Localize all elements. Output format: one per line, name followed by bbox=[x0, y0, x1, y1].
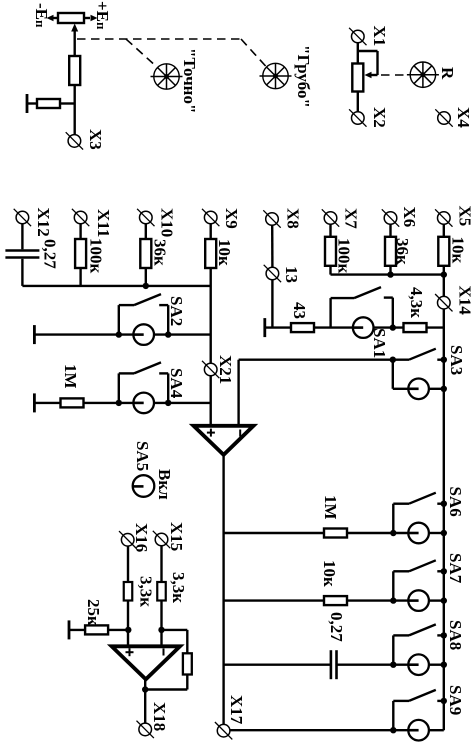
potentiometer RP supply divider body bbox=[58, 13, 84, 23]
terminal X2 bbox=[349, 109, 366, 126]
op-amp U1 bbox=[194, 426, 254, 455]
wire resistor to bus X11 bbox=[79, 268, 81, 286]
wire chassis to resistor 43 bbox=[265, 326, 291, 328]
junction dot SA7 right bbox=[441, 597, 447, 603]
wire X10 to resistor bbox=[145, 224, 147, 239]
junction dot X5 X14 bbox=[441, 271, 447, 277]
svg-text:1М: 1М bbox=[61, 364, 80, 389]
terminal X14 bbox=[435, 294, 452, 311]
wire junction to X3 bbox=[73, 104, 75, 135]
terminal X15 bbox=[153, 531, 170, 548]
wire minus branch down bbox=[237, 360, 239, 426]
resistor 100k left bbox=[75, 239, 86, 268]
wire resistor 43 to SA1 bbox=[314, 326, 353, 328]
terminal X5 bbox=[435, 209, 452, 226]
capacitor 0,27 row bbox=[331, 650, 337, 679]
terminal X7 bbox=[322, 209, 339, 226]
wire X9 to resistor bbox=[209, 224, 211, 239]
switch SA1 button bbox=[353, 317, 374, 338]
svg-text:SA8: SA8 bbox=[446, 620, 465, 650]
svg-text:10к: 10к bbox=[215, 239, 234, 266]
wire SA2 right bbox=[154, 333, 211, 335]
svg-text:X8: X8 bbox=[284, 208, 303, 229]
svg-text:SA6: SA6 bbox=[446, 487, 465, 517]
bus right horizontal bbox=[331, 273, 444, 275]
switch SA6 button bbox=[408, 523, 429, 544]
contact dot SA6 bbox=[437, 503, 444, 505]
wire 10k to SA7 bbox=[347, 599, 408, 601]
svg-text:X9: X9 bbox=[222, 208, 241, 229]
wire X16 to resistor bbox=[127, 546, 129, 582]
wire X12 to capacitor bbox=[21, 224, 23, 250]
wire op-amp minus branch horizontal bbox=[239, 359, 393, 361]
junction dot SA4 right bbox=[165, 400, 171, 406]
wire 4,3k to X14 line bbox=[427, 326, 444, 328]
svg-text:10к: 10к bbox=[320, 560, 339, 587]
switch SA1 brackets and arm bbox=[331, 287, 393, 328]
svg-text:1М: 1М bbox=[321, 495, 340, 520]
junction dot minus node bbox=[158, 627, 164, 633]
svg-text:25к: 25к bbox=[84, 599, 103, 626]
resistor 1M row bbox=[324, 529, 347, 538]
resistor 3,3k right bbox=[157, 582, 166, 601]
wire resistor to chassis bar bbox=[28, 102, 37, 104]
junction dot SA4 left bbox=[116, 400, 122, 406]
wire X5 to resistor bbox=[443, 224, 445, 237]
wire SA6 button right bbox=[429, 532, 444, 534]
junction dot SA6 right bbox=[441, 530, 447, 536]
terminal X3 bbox=[66, 132, 83, 149]
wire divider to junction bbox=[73, 85, 75, 104]
svg-text:"Грубо": "Грубо" bbox=[294, 45, 313, 108]
junction dot plus node bbox=[125, 627, 131, 633]
svg-text:Вкл: Вкл bbox=[155, 469, 174, 500]
switch SA7 button bbox=[408, 590, 429, 611]
terminal X21 bbox=[202, 361, 219, 378]
svg-text:100к: 100к bbox=[87, 238, 106, 274]
wire resistor to minus node bbox=[160, 601, 162, 647]
terminal X16 bbox=[119, 531, 136, 548]
switch SA3 arm bbox=[393, 349, 436, 360]
contact dot SA9 bbox=[437, 700, 444, 702]
svg-text:36к: 36к bbox=[393, 238, 412, 265]
svg-text:100к: 100к bbox=[335, 238, 354, 274]
svg-text:X17: X17 bbox=[227, 695, 246, 725]
wire X17 to SA9 bbox=[230, 729, 408, 731]
svg-text:SA9: SA9 bbox=[446, 685, 465, 715]
resistor 10k left bbox=[205, 239, 216, 268]
switch SA8 button bbox=[408, 654, 429, 675]
svg-text:X5: X5 bbox=[456, 206, 475, 227]
wire op-amp U2 output bbox=[144, 679, 146, 723]
wire SA7 row left bbox=[224, 599, 324, 601]
junction dot SA7 left bbox=[390, 597, 396, 603]
svg-text:43: 43 bbox=[290, 302, 309, 319]
wire chassis to SA2 bbox=[34, 333, 133, 335]
svg-text:X2: X2 bbox=[370, 107, 389, 128]
wire feedback right down bbox=[186, 630, 188, 653]
chassis bar left bbox=[26, 94, 28, 113]
wire SA9 button right bbox=[429, 729, 444, 731]
svg-text:X1: X1 bbox=[370, 26, 389, 47]
switch SA2 button bbox=[133, 324, 154, 345]
wire resistor to bus X10 bbox=[145, 268, 147, 286]
resistor 1M bbox=[61, 398, 84, 407]
+Ep arrow bbox=[84, 15, 98, 21]
dashed mechanical link horizontal bbox=[77, 38, 241, 40]
wire capacitor to bus bbox=[21, 259, 23, 286]
svg-text:X7: X7 bbox=[342, 208, 361, 229]
wire X21 to op-amp bbox=[209, 376, 211, 426]
junction dot SA3 left bbox=[390, 357, 396, 363]
wire chassis to 1M bbox=[34, 402, 60, 404]
terminal X18 bbox=[137, 721, 154, 738]
terminal X12 bbox=[14, 209, 31, 226]
wire potentiometer to X2 bbox=[357, 92, 359, 112]
svg-text:13: 13 bbox=[282, 266, 301, 283]
wire SA1 to junction bbox=[374, 326, 404, 328]
contact dot SA3 bbox=[437, 359, 444, 361]
junction dot SA8 right bbox=[441, 662, 447, 668]
resistor 100k right bbox=[325, 237, 336, 266]
wire capacitor to SA8 bbox=[338, 664, 409, 666]
contact dot SA7 bbox=[437, 570, 444, 572]
svg-text:R: R bbox=[438, 67, 457, 80]
wire X7 to resistor bbox=[329, 224, 331, 237]
switch SA3 bracket bbox=[393, 360, 409, 389]
svg-text:X14: X14 bbox=[456, 286, 475, 316]
lamp Grubo bbox=[260, 63, 292, 88]
switch SA2 brackets and arm bbox=[119, 294, 168, 335]
wire 25k to plus node bbox=[108, 629, 128, 631]
terminal X10 bbox=[137, 209, 154, 226]
resistor 10k row bbox=[324, 596, 347, 605]
wire junction left branch bbox=[60, 102, 75, 104]
terminal X8 bbox=[263, 210, 280, 227]
svg-text:SA1: SA1 bbox=[370, 328, 389, 358]
terminal X1 bbox=[349, 28, 366, 45]
resistor 10k right bbox=[438, 237, 449, 266]
terminal X17 bbox=[215, 722, 232, 739]
junction dot SA2 left bbox=[116, 331, 122, 337]
svg-text:X11: X11 bbox=[94, 209, 113, 237]
junction dot X6 bus bbox=[387, 271, 393, 277]
wire SA6 row left bbox=[224, 532, 324, 534]
chassis bar 25k bbox=[68, 620, 70, 639]
switch SA8 bracket and arm bbox=[393, 624, 436, 664]
wire X14 down bbox=[443, 309, 445, 360]
resistor 36k right bbox=[385, 237, 396, 266]
svg-text:0,27: 0,27 bbox=[41, 239, 60, 269]
resistor 3,3k left bbox=[124, 582, 133, 601]
junction dot X10 bus bbox=[143, 283, 149, 289]
switch SA5 button bbox=[133, 475, 155, 497]
wire feedback top bbox=[162, 629, 188, 631]
wire 1M to SA6 bbox=[347, 532, 408, 534]
chassis bar SA2 bbox=[33, 325, 35, 344]
wire X6 to resistor bbox=[389, 224, 391, 237]
terminal X4 bbox=[435, 109, 452, 126]
svg-text:X16: X16 bbox=[132, 523, 151, 552]
svg-text:3,3к: 3,3к bbox=[137, 576, 156, 607]
wire X14 line down to SA9 bbox=[443, 360, 445, 731]
wire chassis to 25k bbox=[69, 629, 85, 631]
switch SA4 button bbox=[133, 393, 154, 414]
resistor horizontal left branch bbox=[37, 99, 60, 108]
switch SA9 button bbox=[408, 720, 429, 741]
contact dot SA8 bbox=[437, 634, 444, 636]
resistor 36k left bbox=[140, 239, 151, 268]
svg-text:SA4: SA4 bbox=[167, 368, 186, 399]
bus left horizontal bbox=[22, 285, 210, 287]
junction dot U2 output bbox=[142, 686, 148, 692]
terminal 13 bbox=[264, 265, 281, 282]
dashed link to Tochno lamp bbox=[126, 39, 158, 68]
wire SA8 row left bbox=[224, 664, 330, 666]
capacitor 0,27 top bbox=[5, 251, 39, 258]
wire 1M to SA4 bbox=[84, 402, 134, 404]
switch SA7 bracket and arm bbox=[393, 560, 436, 600]
switch SA9 bracket and arm bbox=[393, 690, 436, 730]
svg-text:SA2: SA2 bbox=[167, 296, 186, 326]
terminal X6 bbox=[382, 209, 399, 226]
wiper arrow of supply divider bbox=[71, 24, 78, 57]
wire resistor to bus X7 bbox=[329, 266, 331, 275]
junction dot SA2 right bbox=[165, 331, 171, 337]
svg-text:X15: X15 bbox=[167, 522, 186, 551]
junction dot SA9 left bbox=[390, 727, 396, 733]
resistor feedback bbox=[183, 653, 192, 674]
svg-text:0,27: 0,27 bbox=[327, 612, 346, 642]
switch SA4 brackets and arm bbox=[119, 362, 168, 403]
svg-text:+Еп: +Еп bbox=[93, 1, 112, 30]
wire X11 to resistor bbox=[79, 224, 81, 239]
switch SA6 bracket and arm bbox=[393, 493, 436, 533]
svg-text:10к: 10к bbox=[449, 237, 468, 264]
svg-text:X4: X4 bbox=[454, 107, 473, 128]
svg-text:SA7: SA7 bbox=[446, 553, 465, 584]
dashed link to Grubo lamp bbox=[241, 39, 266, 67]
svg-text:3,3к: 3,3к bbox=[169, 572, 188, 603]
wire SA4 right bbox=[154, 402, 211, 404]
svg-text:X18: X18 bbox=[150, 702, 169, 731]
svg-text:SA3: SA3 bbox=[447, 345, 466, 375]
potentiometer X1 body bbox=[352, 64, 363, 92]
terminal X11 bbox=[72, 209, 89, 226]
lamp Tochno bbox=[151, 64, 183, 89]
wire SA3 button right bbox=[429, 388, 444, 390]
wire resistor to bus X6 bbox=[389, 266, 391, 275]
junction dot SA6 left bbox=[390, 530, 396, 536]
wire op-amp U1 output bbox=[222, 455, 224, 725]
resistor 43 bbox=[291, 323, 314, 332]
svg-text:4,3к: 4,3к bbox=[407, 287, 426, 318]
dashed link to R lamp bbox=[381, 74, 407, 76]
wire bus to X14 bbox=[443, 275, 445, 297]
-Ep arrow bbox=[47, 15, 59, 21]
svg-text:X21: X21 bbox=[216, 355, 235, 384]
junction dot SA3 right bbox=[441, 386, 447, 392]
resistor R-divider vertical bbox=[69, 56, 80, 85]
wire X9 down to X21 bbox=[209, 268, 211, 363]
resistor 4,3k bbox=[404, 323, 427, 332]
svg-text:X12: X12 bbox=[34, 208, 53, 237]
svg-text:X6: X6 bbox=[400, 207, 419, 228]
wiper bracket of potentiometer X1 bbox=[358, 51, 378, 78]
op-amp U2 bbox=[112, 646, 180, 679]
svg-text:SA5: SA5 bbox=[133, 441, 152, 471]
wire X1 to potentiometer bbox=[357, 43, 359, 64]
switch SA3 button bbox=[408, 379, 429, 400]
wire SA7 button right bbox=[429, 599, 444, 601]
svg-text:X10: X10 bbox=[158, 208, 177, 237]
svg-text:X3: X3 bbox=[86, 129, 105, 150]
chassis bar SA4 bbox=[33, 393, 35, 412]
wire terminal 13 down bbox=[271, 280, 273, 328]
wire resistor to plus node bbox=[127, 601, 129, 647]
lamp R bbox=[407, 62, 439, 87]
wire resistor to bus X5 bbox=[443, 266, 445, 275]
junction dot SA8 left bbox=[390, 662, 396, 668]
terminal X9 bbox=[202, 209, 219, 226]
chassis bar X8 branch bbox=[264, 318, 266, 337]
svg-text:36к: 36к bbox=[151, 239, 170, 266]
wire X8 to terminal 13 bbox=[271, 225, 274, 267]
svg-text:-Еп: -Еп bbox=[32, 3, 51, 28]
wire X15 to resistor bbox=[160, 546, 162, 582]
wire SA8 button right bbox=[429, 664, 444, 666]
resistor 25k bbox=[85, 625, 108, 634]
svg-text:"Точно": "Точно" bbox=[180, 48, 199, 113]
junction dot SA1 right bbox=[390, 324, 396, 330]
wire feedback bottom bbox=[145, 675, 187, 690]
